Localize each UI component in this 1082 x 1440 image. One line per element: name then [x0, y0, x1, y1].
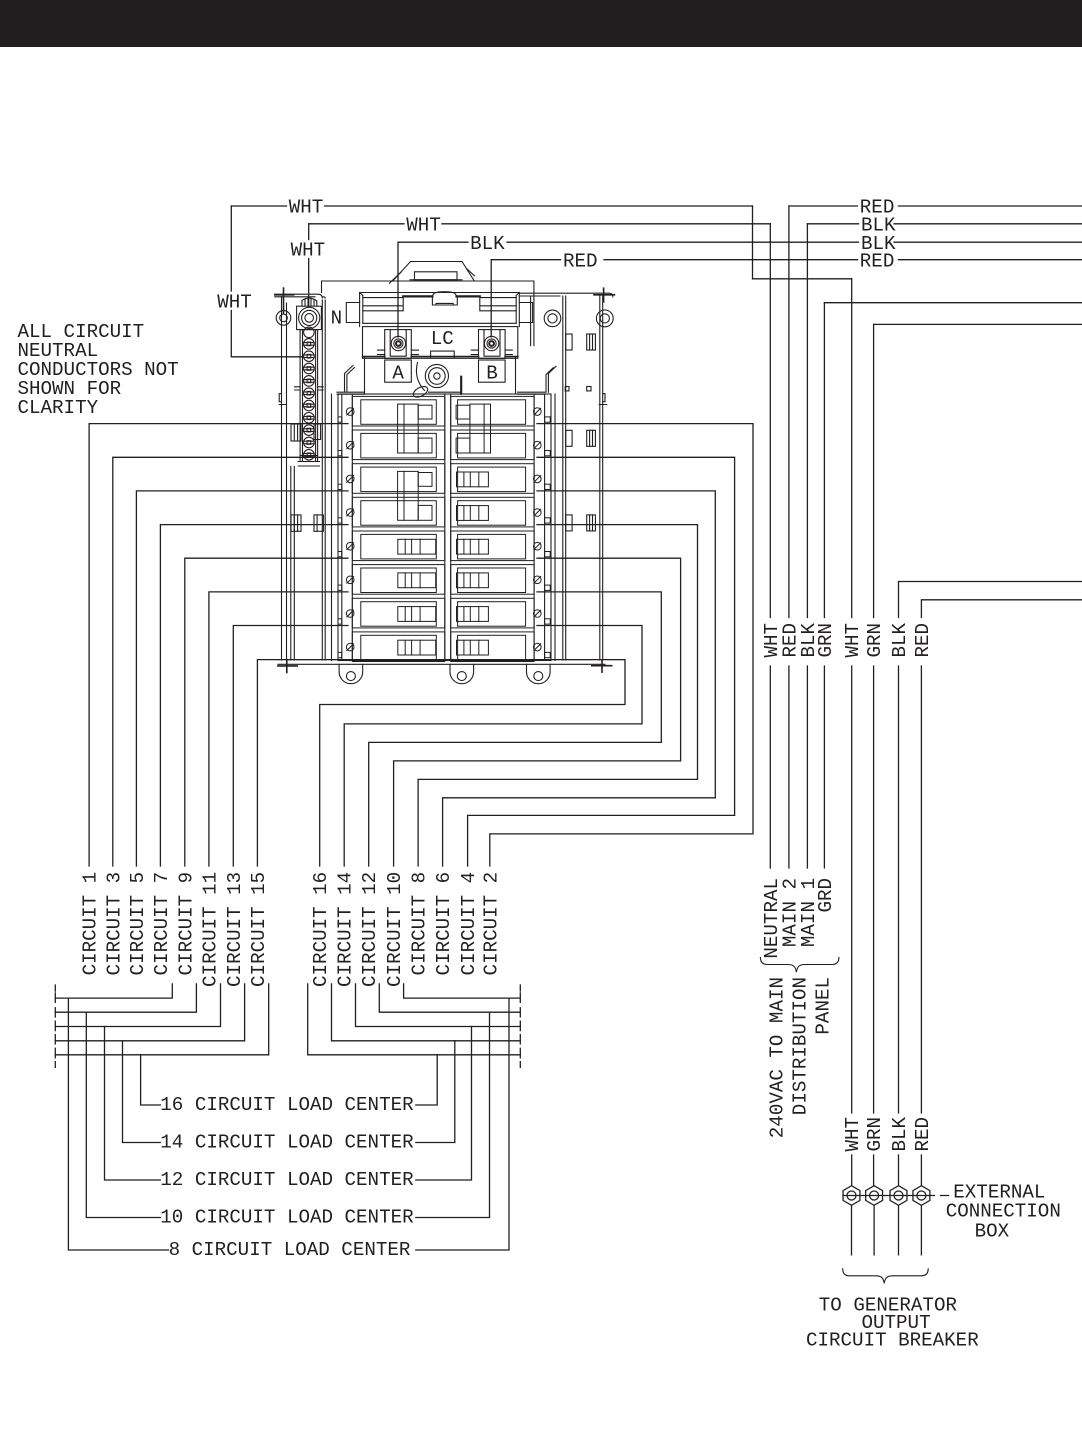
wire bus through studs [843, 1195, 949, 1197]
neutral bar bottom cap [298, 456, 319, 467]
breaker row 7 [352, 598, 445, 628]
breaker row 6 [352, 565, 445, 595]
neutral bar mid ticks [295, 387, 324, 390]
svg-text:A: A [392, 363, 404, 385]
breaker row 2 [352, 430, 445, 460]
wire right drop 16 circuit lc [416, 1055, 437, 1105]
lug crimp strands [302, 298, 317, 306]
wire left bus row 5 [55, 984, 268, 1055]
svg-text:WHT: WHT [291, 240, 326, 262]
knockout center [425, 364, 448, 387]
svg-text:GRN: GRN [864, 1117, 886, 1152]
wire right bus row 3 [356, 984, 521, 1027]
wire circuit 11 [209, 592, 348, 866]
wire RED-B feed from right edge [921, 600, 1082, 1113]
node terminal stud GRN [866, 1186, 883, 1206]
node column WHT-B [851, 279, 853, 1113]
mounting foot 2 [450, 664, 474, 683]
node terminal stud BLK [890, 1186, 907, 1206]
wire drop to 10 circuit lc [86, 1012, 160, 1217]
svg-text:RED: RED [912, 1117, 934, 1152]
breaker row 1 [352, 396, 445, 426]
svg-text:RED: RED [912, 623, 934, 658]
svg-text:B: B [486, 363, 498, 385]
left bracket rails [282, 297, 326, 661]
lug A box [385, 330, 412, 359]
wire circuit 14 [344, 626, 642, 867]
breaker 2pole toggle left rows1-2 [398, 404, 419, 453]
svg-text:10 CIRCUIT LOAD CENTER: 10 CIRCUIT LOAD CENTER [160, 1207, 414, 1229]
breaker single toggle left row5 [398, 539, 436, 554]
breaker single toggle left row8 [398, 640, 436, 655]
wire jog WHT1 to column B1 [753, 206, 852, 279]
svg-text:240VAC TO MAIN: 240VAC TO MAIN [766, 977, 788, 1138]
svg-text:RED: RED [860, 250, 895, 272]
wire left bus row 3 [55, 984, 220, 1027]
panel hump handle [415, 272, 458, 280]
right bracket top cross [594, 288, 614, 302]
svg-text:CIRCUIT 14: CIRCUIT 14 [335, 872, 357, 987]
breaker row 8 [352, 632, 445, 662]
svg-text:WHT: WHT [842, 623, 864, 658]
wire WHT3 vertical to N lug [308, 224, 310, 306]
wire WHT-B lower segment [851, 1155, 853, 1186]
wire right bus row 2 [379, 984, 520, 1012]
panel deck outline [365, 358, 516, 395]
wire circuit 5 [136, 491, 348, 866]
neutral bar [300, 330, 318, 462]
svg-text:PANEL: PANEL [813, 977, 835, 1035]
right rail notch [599, 394, 606, 405]
svg-text:LC: LC [431, 328, 454, 350]
wire GRN-B feed from right edge [874, 323, 1082, 325]
wire circuit 6 [443, 491, 716, 866]
wire circuit 10 [394, 558, 681, 866]
breaker block outer [338, 394, 551, 661]
svg-text:N: N [331, 308, 343, 330]
right clips mid [566, 430, 572, 446]
panel bottom bar [278, 660, 625, 665]
right grommet large [596, 310, 613, 327]
svg-text:14 CIRCUIT LOAD CENTER: 14 CIRCUIT LOAD CENTER [160, 1132, 414, 1154]
right grommet small [544, 310, 561, 327]
panel LC housing bottom notch [431, 351, 455, 357]
panel cover body [360, 293, 520, 327]
wire circuit 16 [320, 660, 625, 866]
node right terminal ticks [519, 985, 521, 1067]
panel deck right wing [518, 366, 557, 394]
panel cover recessed panels [363, 298, 403, 311]
wire GRN-A feed from right edge [824, 302, 1082, 304]
node column BLK-A [806, 224, 808, 868]
svg-text:CIRCUIT 16: CIRCUIT 16 [310, 872, 332, 987]
panel cover left ear [346, 303, 359, 323]
wire circuit 3 [113, 457, 348, 866]
left bracket top cross [275, 288, 294, 313]
header black bar [0, 0, 1082, 47]
wire right drop 10 circuit lc [416, 1012, 490, 1217]
wire circuit 13 [233, 626, 348, 867]
svg-text:BOX: BOX [975, 1221, 1010, 1243]
wire RED top right label line [789, 205, 1082, 207]
wire circuit 4 [468, 457, 735, 866]
svg-text:WHT: WHT [217, 292, 252, 314]
wire left bus row 1 [55, 984, 172, 998]
svg-text:CIRCUIT 10: CIRCUIT 10 [384, 872, 406, 987]
left rail notch [279, 394, 286, 405]
node column RED-A [788, 206, 790, 868]
breaker single toggle right row5 [457, 539, 489, 554]
neutral bar screws [304, 327, 315, 460]
wire drop to 8 circuit lc [68, 998, 168, 1250]
wire drop to 14 circuit lc [123, 1041, 161, 1143]
left clips lower [291, 515, 301, 531]
svg-text:16 CIRCUIT LOAD CENTER: 16 CIRCUIT LOAD CENTER [160, 1094, 414, 1116]
wire drop to 16 circuit lc [141, 1055, 161, 1105]
panel LC housing [363, 327, 518, 359]
wire GRN-B lower segment [873, 1155, 875, 1186]
right clips lower [566, 515, 572, 531]
svg-text:CIRCUIT 13: CIRCUIT 13 [224, 872, 246, 987]
label A box [385, 360, 412, 382]
wire WHT2 horizontal [309, 223, 771, 225]
svg-text:CIRCUIT 5: CIRCUIT 5 [127, 872, 149, 976]
right bracket top bar [519, 293, 613, 297]
breaker 2pole toggle left rows3-4 [398, 471, 419, 520]
wire right drop 12 circuit lc [416, 1027, 472, 1181]
breaker single toggle right row6 [457, 573, 489, 588]
wire WHT1 horizontal (neutral feed) [231, 205, 752, 207]
node column GRN-B [873, 324, 875, 1113]
svg-text:CIRCUIT 1: CIRCUIT 1 [80, 872, 102, 976]
panel cover right ear [519, 303, 532, 323]
node terminal stud WHT [843, 1186, 860, 1206]
wire stud tails [852, 1205, 922, 1255]
trip lever [412, 384, 430, 399]
panel top hump cover [393, 262, 475, 282]
left clips upper [291, 424, 301, 441]
wire BLK from A lug [398, 242, 1082, 337]
brace over 240VAC label [760, 958, 839, 973]
svg-text:CONNECTION: CONNECTION [946, 1201, 1061, 1223]
neutral bar support rails [291, 467, 295, 660]
svg-text:CIRCUIT 8: CIRCUIT 8 [409, 872, 431, 976]
svg-text:8 CIRCUIT LOAD CENTER: 8 CIRCUIT LOAD CENTER [169, 1239, 411, 1261]
wire left bus row 2 [55, 984, 196, 1012]
mounting foot 3 [527, 664, 551, 683]
lug B box [479, 330, 506, 359]
svg-text:CIRCUIT 12: CIRCUIT 12 [359, 872, 381, 987]
svg-text:BLK: BLK [470, 233, 505, 255]
breaker row 4 [352, 497, 445, 527]
svg-text:CIRCUIT 7: CIRCUIT 7 [151, 872, 173, 976]
panel cover center bar and dome tab [403, 295, 480, 297]
wire circuit 1 [89, 424, 348, 866]
svg-text:WHT: WHT [289, 197, 324, 219]
svg-text:BLK: BLK [889, 623, 911, 658]
svg-text:RED: RED [563, 250, 598, 272]
wire BLK-B lower segment [898, 1155, 900, 1186]
wire RED from B lug [491, 260, 1082, 337]
svg-text:CIRCUIT BREAKER: CIRCUIT BREAKER [806, 1330, 979, 1352]
right small tabs [565, 387, 569, 391]
svg-text:CIRCUIT 15: CIRCUIT 15 [248, 872, 270, 987]
right bracket rails [563, 296, 603, 660]
svg-text:WHT: WHT [842, 1117, 864, 1152]
neutral lug N [297, 306, 322, 329]
breaker single toggle right row3 [457, 472, 489, 487]
node left terminal ticks [54, 985, 56, 1067]
svg-text:GRN: GRN [864, 623, 886, 658]
label B box [479, 360, 506, 382]
breaker single toggle left row6 [398, 573, 436, 588]
svg-text:CIRCUIT 9: CIRCUIT 9 [175, 872, 197, 976]
svg-text:CIRCUIT 2: CIRCUIT 2 [480, 872, 502, 976]
right clips top [566, 334, 572, 350]
node column GRN-A [823, 303, 825, 868]
left bracket bottom [278, 660, 297, 673]
svg-text:DISTRIBUTION: DISTRIBUTION [790, 977, 812, 1115]
wire right bus row 5 [308, 984, 521, 1055]
breaker 2pole toggle right rows1-2 [470, 404, 491, 453]
wire drop to 12 circuit lc [105, 1027, 161, 1181]
wire BLK top right label line [807, 223, 1082, 225]
left grommet [276, 311, 291, 326]
left bracket top bar [275, 294, 325, 298]
svg-text:CIRCUIT 6: CIRCUIT 6 [433, 872, 455, 976]
wire circuit 8 [418, 525, 697, 866]
wire RED-B lower segment [920, 1155, 922, 1186]
svg-text:CLARITY: CLARITY [18, 397, 99, 419]
wire WHT1 vertical drop to neutral bar [231, 206, 302, 357]
breaker single toggle left row7 [398, 607, 436, 622]
breaker single toggle right row7 [457, 607, 489, 622]
wire circuit 7 [160, 525, 348, 866]
brace to generator [843, 1269, 929, 1284]
panel deck left wing [337, 366, 365, 395]
side gutter rails [332, 394, 556, 661]
svg-text:CIRCUIT 3: CIRCUIT 3 [103, 872, 125, 976]
breaker single toggle right row8 [457, 640, 489, 655]
svg-text:12 CIRCUIT LOAD CENTER: 12 CIRCUIT LOAD CENTER [160, 1169, 414, 1191]
wire circuit 2 [490, 424, 753, 866]
wire left bus row 4 [55, 984, 244, 1041]
node terminal stud RED [913, 1186, 930, 1206]
right bracket bottom [592, 661, 612, 672]
wire circuit 12 [369, 592, 662, 866]
breaker row 3 [352, 464, 445, 494]
svg-text:GRD: GRD [815, 878, 837, 913]
wire circuit 15 [257, 660, 348, 866]
wire BLK-B feed from right edge [899, 582, 1082, 1114]
svg-text:BLK: BLK [889, 1117, 911, 1152]
svg-text:WHT: WHT [406, 214, 441, 236]
breaker single toggle right row4 [457, 506, 489, 521]
svg-text:GRN: GRN [815, 623, 837, 658]
wire right bus row 4 [332, 984, 521, 1041]
wire right bus row 1 [404, 984, 521, 998]
svg-text:CIRCUIT 4: CIRCUIT 4 [458, 872, 480, 976]
mounting foot 1 [339, 664, 363, 683]
wire right drop 8 circuit lc [416, 998, 509, 1250]
breaker row 5 [352, 531, 445, 561]
node column WHT-A [769, 224, 771, 868]
wire right drop 14 circuit lc [416, 1041, 455, 1143]
wire circuit 9 [185, 558, 348, 866]
panel cover outer flange [322, 281, 534, 346]
svg-text:CIRCUIT 11: CIRCUIT 11 [199, 872, 221, 987]
